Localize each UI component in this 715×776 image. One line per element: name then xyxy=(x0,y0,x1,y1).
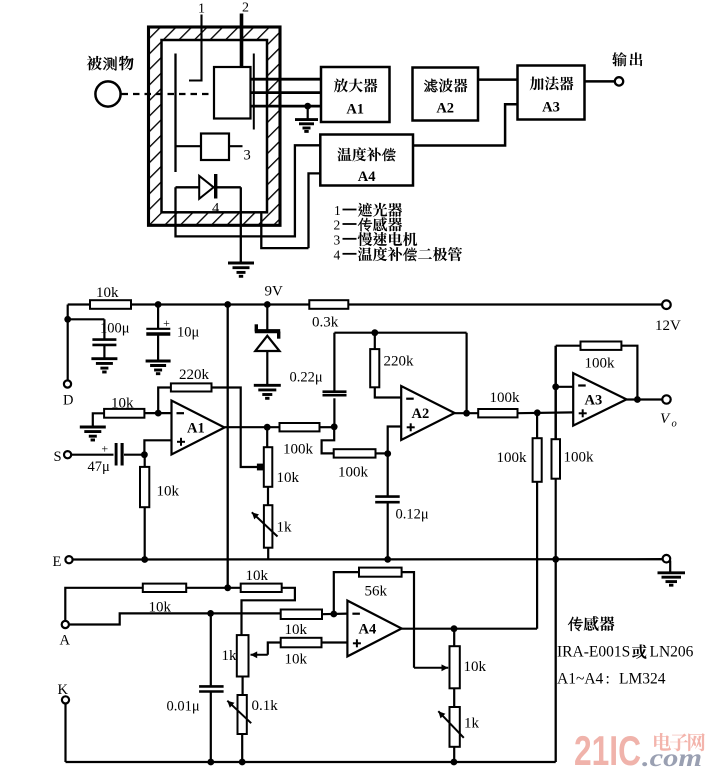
rheostat 1k xyxy=(267,487,269,506)
resistor 10k (A1 minus to gnd) xyxy=(104,409,144,418)
wire long vertical 9V feed xyxy=(227,305,229,588)
sensor enclosure (hatched shield) xyxy=(149,27,281,225)
svg-text:10k: 10k xyxy=(464,659,487,675)
ground (100u) xyxy=(91,357,117,360)
ground (sensor case) xyxy=(228,262,254,265)
svg-text:4: 4 xyxy=(212,201,220,217)
wire to 1k pot top xyxy=(242,588,295,635)
node zener xyxy=(264,301,271,308)
svg-text:V: V xyxy=(660,411,671,427)
Z-jog to 100k xyxy=(322,427,335,454)
potentiometer 1k xyxy=(237,635,249,676)
resistor 220k (A2 feedback) xyxy=(374,333,376,349)
svg-text:10k: 10k xyxy=(96,285,119,301)
resistor 100k (A3 minus to E) xyxy=(554,346,557,440)
svg-text:A: A xyxy=(60,633,71,649)
node A2 plus xyxy=(384,450,391,457)
E rail xyxy=(73,558,663,561)
resistor 10k (bias left) xyxy=(143,584,186,592)
shutter (element 1) xyxy=(174,54,176,173)
svg-text:1k: 1k xyxy=(222,648,238,664)
svg-text:100μ: 100μ xyxy=(100,321,130,337)
svg-text:100k: 100k xyxy=(564,450,595,466)
wire: diode cathode to ground xyxy=(240,187,242,263)
block A4 temperature compensation 温度补偿 xyxy=(320,135,413,186)
capacitor 47u (polarized) xyxy=(115,443,118,466)
node 9V feed xyxy=(224,584,231,591)
svg-text:D: D xyxy=(63,393,73,409)
resistor 10k (rail left) xyxy=(90,300,131,309)
wire to D terminal xyxy=(67,305,69,381)
capacitor 10u (polarized) xyxy=(157,305,159,329)
svg-text:+: + xyxy=(101,441,108,455)
potentiometer 10k (A1 out divider) xyxy=(266,427,268,447)
temperature compensation diode (4) xyxy=(176,186,241,188)
svg-text:A1~A4: A1~A4 xyxy=(557,671,604,688)
svg-text:3: 3 xyxy=(244,148,251,164)
12V terminal xyxy=(662,300,671,309)
resistor 10k (to A4 minus) xyxy=(281,610,322,620)
svg-text:0.1k: 0.1k xyxy=(252,698,279,714)
A4 output wire xyxy=(402,628,537,630)
svg-text:A3: A3 xyxy=(542,100,560,116)
svg-text:0.22μ: 0.22μ xyxy=(290,370,323,386)
svg-text:1: 1 xyxy=(334,203,341,218)
output terminal 输出 xyxy=(585,80,615,83)
optical dashed line xyxy=(122,93,214,95)
node A1 plus xyxy=(141,451,148,458)
svg-text:100k: 100k xyxy=(338,465,369,481)
svg-text:2: 2 xyxy=(242,1,249,16)
wire E to bottom rail xyxy=(555,559,557,762)
potentiometer 10k (A4 out divider) xyxy=(453,629,455,646)
op-amp A3 xyxy=(573,373,626,425)
svg-text:3: 3 xyxy=(334,232,341,247)
resistor 100k (A2 plus input) xyxy=(334,449,376,457)
svg-text:4: 4 xyxy=(334,247,341,262)
zener diode xyxy=(266,305,268,331)
svg-text:10μ: 10μ xyxy=(177,325,200,341)
wiper wire to 1k pot xyxy=(268,643,281,655)
terminal E xyxy=(65,556,72,563)
node 10u xyxy=(155,301,162,308)
A2 feedback top wire xyxy=(334,332,466,334)
block A1 amplifier 放大器 xyxy=(321,67,390,122)
top supply rail xyxy=(68,303,662,305)
node A3 plus branch xyxy=(534,409,541,416)
wire A to divider row xyxy=(69,613,281,624)
text sensor type xyxy=(568,617,583,631)
ground (A1 input) xyxy=(80,426,106,429)
resistor 0.3k xyxy=(309,300,348,309)
svg-text:0.01μ: 0.01μ xyxy=(167,699,200,715)
svg-text:47μ: 47μ xyxy=(88,459,111,475)
wire A up to bias row xyxy=(65,588,143,621)
sensor element box (2) xyxy=(214,67,251,119)
resistor 10k (to A4 plus) xyxy=(281,638,322,648)
svg-text:1: 1 xyxy=(198,2,205,17)
node long 9V branch xyxy=(224,301,231,308)
slow motor box (3) xyxy=(201,134,229,161)
svg-text:9V: 9V xyxy=(265,284,284,300)
svg-text:100k: 100k xyxy=(497,450,528,466)
terminal A xyxy=(62,621,69,628)
svg-text:1k: 1k xyxy=(277,520,293,536)
wire A2 to A3 xyxy=(478,78,518,81)
resistor 220k (A1 feedback) xyxy=(171,383,212,391)
svg-text:10k: 10k xyxy=(285,622,308,638)
node A1 minus xyxy=(144,412,171,414)
node A4 minus xyxy=(330,611,337,618)
rheostat 0.1k xyxy=(242,677,244,696)
block A3 adder 加法器 xyxy=(518,66,585,120)
node: shield ground junction xyxy=(304,103,311,110)
svg-text:100k: 100k xyxy=(585,356,616,372)
resistor 100k (A2 out) xyxy=(478,409,517,417)
op-amp A1 xyxy=(172,401,225,455)
svg-text:10k: 10k xyxy=(285,652,308,668)
svg-text:0.3k: 0.3k xyxy=(312,315,339,331)
svg-text:12V: 12V xyxy=(655,318,681,334)
svg-text:10k: 10k xyxy=(246,568,269,584)
capacitor 0.22u xyxy=(333,398,335,427)
svg-text:S: S xyxy=(54,449,62,465)
resistor 10k (S to E) xyxy=(140,467,149,507)
E rail right terminal and ground xyxy=(663,555,671,563)
resistor 56k (A4 feedback) xyxy=(334,572,359,614)
A2 output xyxy=(455,412,479,414)
svg-text:A2: A2 xyxy=(412,406,430,422)
svg-text:220k: 220k xyxy=(384,354,415,370)
capacitor 0.01u xyxy=(210,613,212,685)
block A2 filter 滤波器 xyxy=(413,68,479,121)
svg-text:100k: 100k xyxy=(490,390,521,406)
svg-text:10k: 10k xyxy=(111,396,134,412)
svg-text:A1: A1 xyxy=(346,102,364,118)
bottom rail xyxy=(64,704,66,763)
A1 output wire xyxy=(225,426,280,428)
capacitor 0.12u xyxy=(387,454,389,496)
svg-text:56k: 56k xyxy=(365,584,388,600)
svg-text::: : xyxy=(606,671,610,688)
svg-text:IRA-E001S: IRA-E001S xyxy=(557,644,630,661)
svg-text:21IC: 21IC xyxy=(574,727,641,774)
wire: sensor to A4 second input xyxy=(261,212,308,249)
svg-text:1k: 1k xyxy=(464,716,480,732)
svg-text:A1: A1 xyxy=(187,421,205,437)
svg-text:220k: 220k xyxy=(179,367,210,383)
svg-text:LN206: LN206 xyxy=(650,644,694,661)
terminal D xyxy=(64,380,71,387)
svg-text:100k: 100k xyxy=(283,442,314,458)
resistor 100k (A1 out) xyxy=(280,423,320,431)
measured object 被测物 xyxy=(87,56,102,71)
svg-text:.com: .com xyxy=(642,745,702,772)
wire A3 feedback left xyxy=(556,345,581,347)
wire: diode anode down to A4 input xyxy=(176,145,322,236)
svg-text:A4: A4 xyxy=(358,169,376,185)
svg-text:A3: A3 xyxy=(585,393,603,409)
svg-text:E: E xyxy=(53,554,62,570)
ground (10u) xyxy=(146,360,171,363)
svg-text:+: + xyxy=(163,316,170,330)
ground (shield) xyxy=(295,118,318,121)
resistor 100k (to A4 out) xyxy=(536,413,538,438)
svg-text:LM324: LM324 xyxy=(619,671,666,688)
op-amp A2 xyxy=(401,386,454,440)
A3 output xyxy=(627,398,663,400)
svg-text:2: 2 xyxy=(334,218,341,233)
resistor 100k (A3 feedback) xyxy=(581,342,622,350)
wiper arrow into 10k potentiometer xyxy=(414,667,448,669)
op-amp A4 xyxy=(347,601,401,657)
svg-text:o: o xyxy=(672,419,677,430)
svg-text:A2: A2 xyxy=(436,101,454,117)
svg-text:10k: 10k xyxy=(277,470,300,486)
svg-text:A4: A4 xyxy=(359,622,377,638)
node (100u tap) xyxy=(64,316,71,323)
wires: sensor outputs to amplifier A1 xyxy=(251,78,321,81)
rheostat 1k (A4 out) xyxy=(450,707,460,747)
resistor 10k (bias right) xyxy=(241,584,282,592)
terminal S xyxy=(64,451,71,458)
wire A4 to A3 xyxy=(413,104,518,145)
capacitor 100u xyxy=(103,319,105,338)
ground (zener) xyxy=(254,384,281,387)
svg-text:0.12μ: 0.12μ xyxy=(396,507,429,523)
node 0.22u junction xyxy=(331,423,338,430)
svg-text:10k: 10k xyxy=(157,484,180,500)
